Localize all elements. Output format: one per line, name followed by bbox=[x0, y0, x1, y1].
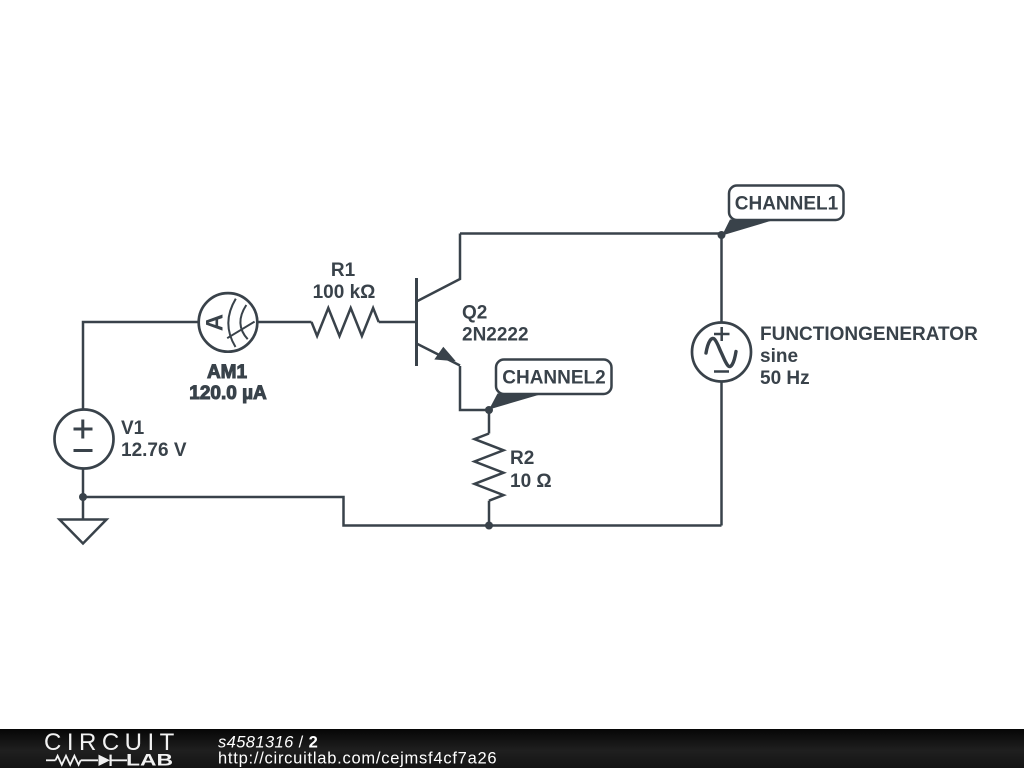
wire bbox=[257, 321, 312, 324]
svg-text:AM1: AM1 bbox=[207, 362, 248, 383]
logo resistor-diode glyph bbox=[46, 755, 127, 766]
svg-text:2N2222: 2N2222 bbox=[462, 325, 529, 346]
resistor R1 bbox=[312, 260, 379, 336]
voltage source FUNCTIONGENERATOR bbox=[692, 323, 978, 390]
flag CHANNEL1 bbox=[722, 186, 844, 236]
wire bbox=[379, 321, 415, 324]
ground bbox=[60, 520, 107, 544]
svg-text:sine: sine bbox=[760, 346, 798, 367]
svg-text:10 Ω: 10 Ω bbox=[510, 471, 552, 492]
wire bbox=[83, 497, 489, 526]
voltage source V1 bbox=[55, 410, 187, 469]
svg-text:Q2: Q2 bbox=[462, 303, 487, 324]
svg-text:R1: R1 bbox=[331, 260, 356, 281]
svg-text:12.76 V: 12.76 V bbox=[121, 440, 187, 461]
svg-text:100 kΩ: 100 kΩ bbox=[313, 282, 376, 303]
node bbox=[485, 406, 493, 414]
svg-text:http://circuitlab.com/cejmsf4c: http://circuitlab.com/cejmsf4cf7a26 bbox=[218, 750, 497, 768]
wire bbox=[460, 366, 489, 410]
wire bbox=[720, 381, 723, 526]
ammeter AM1 bbox=[189, 293, 267, 404]
wire bbox=[720, 235, 723, 323]
flag CHANNEL2 bbox=[489, 360, 612, 410]
svg-text:A: A bbox=[201, 314, 228, 331]
node bbox=[718, 231, 726, 239]
footer bar bbox=[0, 729, 1024, 768]
transistor Q2 bbox=[417, 234, 529, 367]
svg-text:50 Hz: 50 Hz bbox=[760, 368, 810, 389]
wire bbox=[82, 469, 85, 519]
wire bbox=[489, 524, 722, 527]
svg-text:LAB: LAB bbox=[126, 751, 173, 768]
svg-text:CHANNEL1: CHANNEL1 bbox=[735, 194, 839, 215]
svg-text:120.0 µA: 120.0 µA bbox=[189, 383, 267, 404]
wire bbox=[83, 322, 199, 410]
svg-text:V1: V1 bbox=[121, 418, 145, 439]
svg-text:FUNCTIONGENERATOR: FUNCTIONGENERATOR bbox=[760, 324, 978, 345]
wire bbox=[460, 232, 722, 235]
resistor R2 bbox=[475, 410, 552, 526]
svg-text:R2: R2 bbox=[510, 448, 534, 469]
node bbox=[485, 522, 493, 530]
svg-text:CHANNEL2: CHANNEL2 bbox=[502, 368, 605, 389]
node bbox=[79, 493, 87, 501]
